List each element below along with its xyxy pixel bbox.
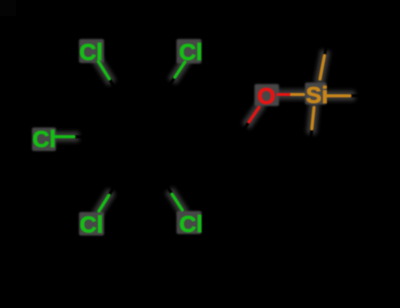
- svg-text:O: O: [257, 83, 275, 109]
- ring bond V4-V5: [119, 178, 162, 179]
- bond O-Si red half: [278, 93, 292, 96]
- svg-text:Cl: Cl: [32, 126, 56, 152]
- bond C4-Cl5 black half: [162, 178, 172, 194]
- ring bond V6-V1: [94, 96, 120, 137]
- bond V3-C7: [193, 136, 239, 139]
- bond C6-Cl3 green half: [53, 135, 74, 138]
- bond Si-C9 orange half: [328, 94, 351, 97]
- halo of bond Si-C8: [320, 56, 325, 80]
- bond Si-C10 orange half: [312, 108, 314, 130]
- halo of bond C6-Cl3: [53, 132, 74, 142]
- box Si: [305, 83, 327, 105]
- faint corner artifact: [0, 0, 16, 16]
- svg-text:Cl: Cl: [79, 39, 103, 65]
- bond C1-Cl1 black half: [109, 79, 120, 96]
- bond O-Si orange half: [292, 93, 304, 96]
- box Cl2 top-right: [177, 39, 202, 64]
- bond Si-C10 black half (down methyl): [310, 129, 312, 151]
- halo of bond C7-O: [249, 107, 259, 122]
- box Cl3 left: [32, 128, 56, 152]
- halo of bond Si-C9: [328, 91, 351, 101]
- bond Si-C9 black half (right methyl): [350, 94, 372, 97]
- ring bond V5-V6: [94, 137, 119, 179]
- bond Si-C8 black half (up methyl): [325, 32, 330, 56]
- bond C7-O black half: [239, 122, 249, 137]
- bond Si-C8 orange half: [320, 56, 325, 80]
- bond C2-Cl2 green half: [175, 62, 185, 77]
- box Cl4 bottom-left: [79, 212, 104, 236]
- halo of bond C5-Cl4: [99, 195, 109, 211]
- ring bond V2-V3: [165, 92, 193, 137]
- box Cl5 bottom-right: [177, 211, 202, 234]
- bond C5-Cl4 green half: [99, 195, 109, 211]
- atom labels: [32, 39, 328, 238]
- svg-text:Cl: Cl: [179, 39, 203, 65]
- bond C6-Cl3 black half: [74, 135, 94, 138]
- bond C5-Cl4 black half: [109, 179, 119, 195]
- ring bond V1-V2: [120, 92, 165, 96]
- halo of bond C2-Cl2: [175, 62, 185, 77]
- halo of bond Si-C10: [312, 108, 314, 130]
- gray JPEG-halo bands under colored bond stubs: [53, 56, 350, 212]
- colored half-bonds: [53, 56, 350, 212]
- bond C2-Cl2 black half: [165, 77, 175, 92]
- halo of bond C1-Cl1: [98, 62, 109, 79]
- box Cl1 top-left: [79, 39, 104, 63]
- bond C4-Cl5 green half: [172, 194, 182, 210]
- svg-text:Cl: Cl: [80, 212, 104, 238]
- carbon skeleton (black on black, invisible): benzene ring: [74, 32, 372, 195]
- svg-text:Cl: Cl: [179, 211, 203, 237]
- bond C7-O red half: [249, 107, 259, 122]
- bond C1-Cl1 green half: [98, 62, 109, 79]
- halo of bond O-Si: [278, 90, 304, 100]
- label background boxes: [32, 39, 327, 236]
- ring bond V3-V4: [162, 137, 193, 178]
- svg-text:Si: Si: [306, 82, 328, 108]
- halo of bond C4-Cl5: [172, 194, 182, 210]
- box O: [255, 84, 280, 106]
